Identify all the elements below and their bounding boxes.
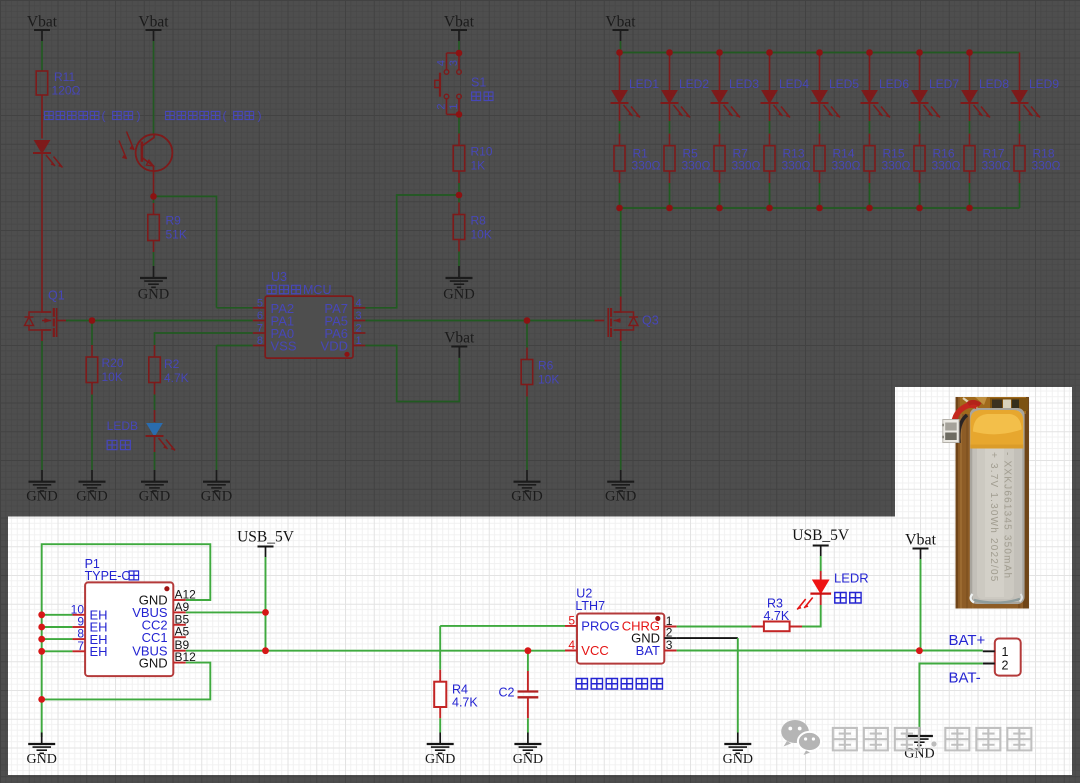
wire R16 to bottom rail (919, 171, 921, 208)
transistor Q3 N-MOSFET (595, 297, 659, 342)
wire BAT- to GND (919, 664, 982, 728)
wire Vbat stem to BAT+ node (919, 559, 920, 651)
pins R3 (751, 626, 802, 628)
junction node bottom rail col7 (916, 205, 923, 212)
resistor R3 4.7K (764, 597, 790, 632)
svg-text:USB_5V: USB_5V (792, 527, 850, 544)
wire into PA2 stub (217, 307, 253, 309)
resistor R15 330ohm (864, 146, 911, 173)
svg-text:10K: 10K (102, 370, 123, 384)
svg-text:4: 4 (568, 638, 575, 652)
svg-text:Vbat: Vbat (444, 14, 475, 31)
ground GND (BAT-) (904, 727, 934, 761)
wire LED bottom rail (620, 207, 1020, 209)
resistor R9 51K (148, 214, 187, 242)
svg-text:R4: R4 (452, 683, 468, 697)
wire U3 pin3 PA5 to Q3 gate (365, 320, 594, 322)
MCU U3 (single-chip microcomputer) (253, 270, 366, 358)
node R2 top (154, 356, 156, 358)
svg-text:LED9: LED9 (1029, 77, 1059, 91)
battery photograph (lithium cell) (942, 397, 1029, 609)
battery connector J1 pins 1-2 (983, 639, 1021, 676)
resistor R7 330ohm (714, 146, 761, 173)
junction node S1 top (456, 50, 463, 57)
svg-text:C2: C2 (499, 686, 515, 700)
svg-text:330Ω: 330Ω (832, 159, 861, 173)
ground GND (LEDB) (139, 470, 170, 505)
junction node bottom rail col3 (716, 205, 723, 212)
svg-text:LEDR: LEDR (834, 571, 869, 586)
junction node top rail col5 (816, 49, 823, 56)
ground GND (R20) (76, 470, 107, 505)
wire node to R20 (91, 321, 93, 358)
wire rail to LED4 (769, 53, 771, 91)
svg-text:BAT-: BAT- (949, 670, 981, 687)
junction node S1 bottom (456, 111, 463, 118)
wire U2 GND pin2 (677, 637, 738, 639)
wire rail to LED2 (669, 53, 671, 91)
LED LED7 (911, 77, 960, 118)
junction node bus pin 10 (38, 611, 45, 618)
wire R13 to bottom rail (769, 171, 771, 208)
svg-text:1: 1 (1002, 645, 1009, 659)
junction node bus B12 (38, 696, 45, 703)
wire LED9 to R18 (1019, 103, 1021, 146)
charge management IC U2 LTH7 (565, 587, 677, 664)
svg-text:(: ( (223, 109, 227, 123)
wire R10 to node (458, 171, 460, 195)
ground GND (P1 bus) (27, 733, 57, 768)
svg-text:LED6: LED6 (879, 77, 909, 91)
svg-text:330Ω: 330Ω (882, 159, 911, 173)
resistor R14 330ohm (814, 146, 861, 173)
junction node bottom rail col4 (766, 205, 773, 212)
power port Vbat (LED rail) (605, 14, 636, 42)
svg-text:GND: GND (443, 287, 474, 303)
svg-text:10K: 10K (471, 228, 492, 242)
svg-text:120Ω: 120Ω (52, 84, 81, 98)
svg-text:4.7K: 4.7K (452, 696, 478, 710)
power port Vbat (battery) (905, 532, 937, 560)
wire left bus to P1 pin 10 (42, 614, 73, 616)
resistor R4 4.7K (434, 682, 478, 710)
svg-text:LTH7: LTH7 (575, 599, 605, 613)
resistor R20 10K (86, 356, 124, 384)
svg-text:GND: GND (513, 752, 543, 767)
wire node to R8 (458, 195, 460, 215)
svg-text:5: 5 (257, 297, 263, 309)
wire R6 to GND (526, 385, 528, 471)
junction node bus pin 8 (38, 636, 45, 643)
svg-text:PROG: PROG (581, 619, 619, 634)
svg-text:USB_5V: USB_5V (237, 529, 295, 546)
wire LED5 to R14 (819, 103, 821, 146)
svg-text:Vbat: Vbat (27, 14, 58, 31)
ground GND (C2) (513, 733, 543, 768)
svg-text:330Ω: 330Ω (782, 159, 811, 173)
wire PROG net to R4 (439, 626, 441, 670)
svg-text:(: ( (102, 109, 106, 123)
wire USB_5V stem (265, 557, 267, 651)
svg-text:A5: A5 (175, 625, 190, 639)
wire Q3 drain to LED rail (620, 208, 622, 297)
wire R11 to IR LED (41, 95, 43, 139)
wire Vbat to R11 (41, 41, 43, 71)
svg-text:4: 4 (435, 60, 447, 66)
svg-text:51K: 51K (166, 228, 187, 242)
svg-text:6: 6 (257, 310, 263, 322)
transistor Q1 N-MOSFET (25, 289, 67, 342)
wire node to U3 pin5 PA2 (154, 196, 217, 307)
wire rail to LED6 (869, 53, 871, 91)
svg-text:EH: EH (90, 644, 108, 659)
LED LED6 (861, 77, 910, 118)
svg-text:Vbat: Vbat (905, 532, 937, 549)
svg-text:2: 2 (1002, 659, 1009, 673)
wire USB_5V to LEDR (820, 556, 822, 571)
svg-text:3: 3 (356, 310, 362, 322)
resistor R16 330ohm (914, 146, 961, 173)
svg-text:GND: GND (138, 287, 169, 303)
wire P1 B9 VBUS to U2 VCC (186, 650, 565, 652)
svg-text:1: 1 (448, 103, 460, 109)
svg-text:3: 3 (448, 60, 460, 66)
wire LEDB to GND (154, 436, 156, 470)
wire rail to LED9 (1019, 53, 1021, 91)
svg-text:GND: GND (139, 655, 168, 670)
LED LEDR red (797, 571, 868, 610)
wire node down to R9 (153, 196, 155, 214)
wire node to C2 (527, 651, 529, 671)
junction node bus pin 7 (38, 648, 45, 655)
net label BAT+ (949, 632, 986, 649)
ground GND (R6) (511, 470, 542, 505)
resistor R1 330ohm (614, 146, 661, 173)
wire left bus to P1 pin 9 (42, 626, 73, 628)
svg-text:1K: 1K (471, 159, 486, 173)
wire LED8 to R17 (969, 103, 971, 146)
junction node bottom rail col8 (966, 205, 973, 212)
svg-text:R11: R11 (54, 70, 75, 84)
svg-text:LED4: LED4 (779, 77, 809, 91)
wire Q1 gate node to U3 pin6 PA1 (66, 320, 253, 322)
LED LED8 (961, 77, 1010, 118)
svg-text:GND: GND (26, 489, 57, 505)
LED LED4 (761, 77, 810, 118)
svg-text:4.7K: 4.7K (164, 371, 189, 385)
svg-text:GND: GND (425, 752, 455, 767)
wire U3 pin7 PA0 to R2 (155, 333, 253, 357)
LED LED1 (611, 77, 660, 118)
resistor R2 4.7K (149, 357, 189, 385)
resistor R18 330ohm (1014, 146, 1061, 173)
junction node bus pin 9 (38, 624, 45, 631)
LED LED3 (711, 77, 760, 118)
svg-text:GND: GND (76, 489, 107, 505)
svg-text:GND: GND (27, 752, 57, 767)
svg-text:LEDB: LEDB (107, 419, 138, 433)
wire R9 to GND (153, 241, 155, 267)
wire PA5 node to R6 (526, 321, 528, 360)
svg-text:LED3: LED3 (729, 77, 759, 91)
svg-text:+ 3.7V 1.30Wh 2022/05: + 3.7V 1.30Wh 2022/05 (988, 452, 999, 583)
svg-text:330Ω: 330Ω (982, 159, 1011, 173)
svg-text:GND: GND (511, 489, 542, 505)
junction node top rail col3 (716, 49, 723, 56)
svg-text:7: 7 (77, 639, 84, 653)
wire rail to LED5 (819, 53, 821, 91)
junction node R10/R8/PA7 (456, 192, 463, 199)
wire R1 to bottom rail (619, 171, 621, 208)
wire U2 CHRG to R3 (677, 626, 752, 628)
wire R18 to bottom rail (1019, 171, 1021, 208)
svg-text:Q3: Q3 (642, 314, 659, 328)
svg-text:7: 7 (257, 323, 263, 335)
LED LEDB blue (107, 419, 175, 451)
svg-text:- XXKJ661345 350mAh: - XXKJ661345 350mAh (1002, 452, 1013, 579)
junction node PA5/R6 (524, 317, 531, 324)
wire Q1 source to GND (41, 341, 43, 470)
ground GND (VSS) (201, 470, 232, 505)
svg-text:330Ω: 330Ω (732, 159, 761, 173)
wire left bus to P1 pin 7 (42, 650, 73, 652)
junction node A9/USB_5V (262, 609, 269, 616)
pin R4 top (439, 670, 441, 682)
svg-text:U3: U3 (271, 270, 287, 284)
wire LED2 to R5 (669, 103, 671, 146)
wire R17 to bottom rail (969, 171, 971, 208)
svg-text:VDD: VDD (321, 339, 348, 354)
junction node top rail col2 (666, 49, 673, 56)
junction node bottom rail col6 (866, 205, 873, 212)
wire P1 A12 GND loop to left bus (42, 544, 211, 737)
LED LED2 (661, 77, 710, 118)
phototransistor (IR receiver) (119, 132, 172, 172)
wire Vbat to phototransistor collector (153, 41, 155, 134)
svg-text:5: 5 (568, 614, 575, 628)
wire node to U3 pin4 PA7 (365, 195, 459, 308)
resistor R13 330ohm (764, 146, 811, 173)
wire P1 B12 GND to left bus (42, 663, 211, 700)
wire IR LED to Q1 drain (41, 153, 43, 297)
wire LED4 to R13 (769, 103, 771, 146)
svg-text:Vbat: Vbat (605, 14, 636, 31)
power port Vbat (S1 column) (444, 14, 475, 42)
wire rail to LED8 (969, 53, 971, 91)
wire left bus to P1 pin 8 (42, 638, 73, 640)
svg-text:VCC: VCC (581, 643, 608, 658)
svg-text:2: 2 (356, 323, 362, 335)
power port Vbat (R11 column) (27, 14, 58, 42)
resistor R17 330ohm (964, 146, 1011, 173)
svg-text:): ) (137, 109, 141, 123)
wire R5 to bottom rail (669, 171, 671, 208)
wire rail to LED7 (919, 53, 921, 91)
svg-text:R6: R6 (538, 359, 554, 373)
ground GND (Q3) (605, 470, 636, 505)
wire phototransistor emitter to node (153, 171, 155, 196)
wire U2 BAT to battery connector (677, 650, 983, 652)
label infrared receiver (black) (166, 109, 262, 123)
svg-text:TYPE-C: TYPE-C (85, 569, 131, 583)
wire rail to LED3 (719, 53, 721, 91)
wire LED1 to R1 (619, 103, 621, 146)
junction node C2/VCC net (525, 647, 532, 654)
svg-text:330Ω: 330Ω (1032, 159, 1061, 173)
svg-text:LED8: LED8 (979, 77, 1009, 91)
power port USB_5V (LEDR) (792, 527, 850, 556)
svg-text:VSS: VSS (271, 339, 297, 354)
resistor R5 330ohm (664, 146, 711, 173)
svg-text:R10: R10 (471, 145, 493, 159)
LED LED5 (811, 77, 860, 118)
svg-text:LED1: LED1 (629, 77, 659, 91)
svg-text:BAT: BAT (636, 643, 660, 658)
svg-text:BAT+: BAT+ (949, 632, 986, 649)
ground GND (R8) (443, 266, 474, 303)
white schematic sheet panel (8, 387, 1072, 775)
IR emitter LED diode (33, 141, 63, 168)
wire R8 to GND (458, 240, 460, 267)
wire P1 A9 VBUS to USB_5V (186, 611, 266, 613)
wire LED7 to R16 (919, 103, 921, 146)
capacitor C2 (499, 671, 539, 718)
LED LED9 (1011, 77, 1060, 118)
svg-text:R8: R8 (471, 214, 487, 228)
svg-text:Q1: Q1 (48, 289, 65, 303)
svg-text:330Ω: 330Ω (932, 159, 961, 173)
svg-text:330Ω: 330Ω (632, 159, 661, 173)
svg-text:Vbat: Vbat (138, 14, 169, 31)
svg-text:MCU: MCU (303, 283, 331, 297)
junction node top rail col7 (916, 49, 923, 56)
USB connector P1 TYPE-C socket (71, 557, 197, 676)
wire R3 to LEDR (802, 605, 821, 627)
ground GND (U2) (723, 733, 753, 768)
svg-text:Vbat: Vbat (444, 330, 475, 347)
wire R2 to LEDB (154, 383, 156, 423)
wire Vbat to top rail (620, 41, 622, 53)
junction node bottom rail col1 (616, 205, 623, 212)
svg-text:4: 4 (356, 297, 362, 309)
resistor R11 120ohm (36, 70, 80, 98)
svg-text:10K: 10K (538, 373, 559, 387)
pin R4 bottom (439, 707, 441, 718)
wire S1 to R10 (458, 114, 460, 145)
svg-text:GND: GND (201, 489, 232, 505)
svg-text:S1: S1 (471, 76, 486, 90)
svg-text:GND: GND (605, 489, 636, 505)
wire rail to LED1 (619, 53, 621, 91)
svg-text:LED2: LED2 (679, 77, 709, 91)
wire Q3 source to GND (620, 341, 622, 470)
svg-text:): ) (258, 109, 262, 123)
wire U3 pin8 VSS (217, 345, 253, 347)
wire R20 to GND (91, 383, 93, 471)
junction node top rail col1 (616, 49, 623, 56)
net label BAT- (949, 670, 981, 687)
svg-text:8: 8 (257, 335, 263, 347)
svg-text:LED7: LED7 (929, 77, 959, 91)
svg-text:R20: R20 (102, 356, 124, 370)
svg-text:3: 3 (666, 638, 673, 652)
junction node BAT+/Vbat (916, 647, 923, 654)
junction node emitter/R9/PA2 (150, 193, 157, 200)
junction node top rail col6 (866, 49, 873, 56)
resistor R6 10K (521, 359, 559, 387)
svg-text:R2: R2 (164, 357, 180, 371)
wire LED top rail (620, 52, 1020, 54)
svg-text:1: 1 (356, 335, 362, 347)
wire LED3 to R7 (719, 103, 721, 146)
wire C2 to GND (527, 718, 529, 732)
svg-text:4.7K: 4.7K (764, 609, 790, 623)
wire VSS to GND (216, 346, 218, 471)
ground GND (R9) (138, 266, 169, 303)
junction node bottom rail col2 (666, 205, 673, 212)
wire U2 GND down (737, 638, 739, 732)
wire R15 to bottom rail (869, 171, 871, 208)
ground GND (R4) (425, 733, 455, 768)
svg-text:LED5: LED5 (829, 77, 859, 91)
wire R4 to GND (439, 718, 441, 732)
label infrared emitter (transparent) (45, 109, 141, 123)
resistor R8 10K (453, 214, 492, 242)
wire R7 to bottom rail (719, 171, 721, 208)
power port USB_5V (P1) (237, 529, 295, 558)
svg-text:R9: R9 (166, 214, 182, 228)
svg-text:GND: GND (723, 752, 753, 767)
junction node B9/USB_5V (262, 647, 269, 654)
wire LED6 to R15 (869, 103, 871, 146)
svg-text:330Ω: 330Ω (682, 159, 711, 173)
ground GND (Q1) (26, 470, 57, 505)
resistor R10 1K (453, 145, 493, 173)
wire R4 to U2 PROG (440, 625, 565, 627)
wire U3 pin1 VDD to Vbat (365, 346, 459, 402)
junction node gate/R20 (89, 317, 96, 324)
wire Vbat to S1 (458, 41, 460, 53)
label charge management chip (576, 678, 662, 689)
junction node top rail col4 (766, 49, 773, 56)
watermark text official account (833, 728, 1032, 750)
svg-text:2: 2 (435, 103, 447, 109)
power port Vbat (VDD) (444, 330, 475, 358)
svg-text:GND: GND (139, 489, 170, 505)
junction node bottom rail col5 (816, 205, 823, 212)
wire R14 to bottom rail (819, 171, 821, 208)
junction node top rail col8 (966, 49, 973, 56)
power port Vbat (phototransistor column) (138, 14, 169, 42)
watermark WeChat icon (781, 720, 821, 755)
push button S1 (key) (435, 53, 493, 114)
